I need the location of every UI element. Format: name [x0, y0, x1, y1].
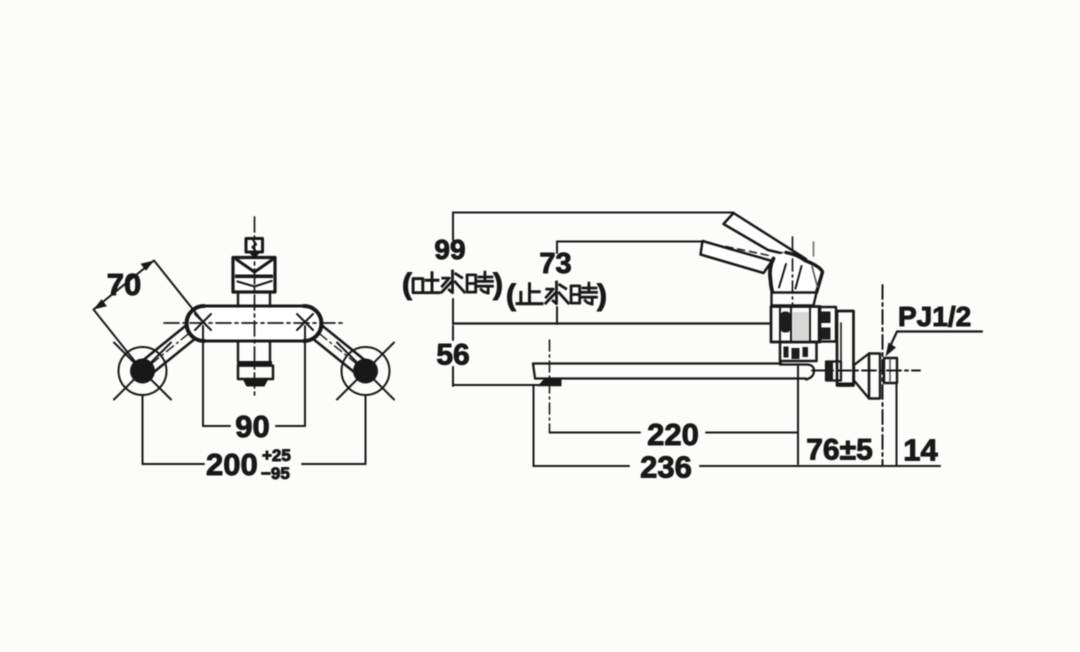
lever tip arrow (front) [248, 251, 262, 260]
spout neck (front) [238, 341, 270, 361]
wall line vertical [882, 285, 884, 466]
crank bar [837, 311, 854, 386]
right leg axis dash [305, 322, 366, 371]
left leg axis dash [143, 322, 204, 371]
svg-text:73: 73 [539, 248, 571, 280]
bell inner slants [779, 264, 802, 289]
svg-text:PJ1/2: PJ1/2 [898, 301, 971, 332]
lever open position [724, 213, 807, 259]
aerator (side) [538, 379, 562, 386]
vertical dim line x557 [556, 242, 558, 325]
lever bell [770, 253, 823, 293]
dim 200 line [143, 463, 366, 465]
lever hidden vertical [813, 242, 815, 256]
spout tube (side) [533, 364, 806, 379]
dim 70 arrow lower [94, 299, 108, 309]
svg-text:76±5: 76±5 [806, 434, 873, 467]
dim 220 line [550, 432, 799, 434]
svg-text:−95: −95 [261, 464, 290, 483]
label (吐水時) [402, 268, 503, 301]
cartridge centerline [792, 237, 794, 307]
body end cap left heavy [187, 306, 205, 341]
handle lower curve [238, 281, 272, 287]
body inner edge lines [780, 307, 810, 342]
lever hidden dashes [726, 247, 769, 256]
svg-text:236: 236 [640, 450, 692, 485]
dim 90 line [203, 425, 305, 427]
bottom reference line 56 [453, 384, 539, 386]
handle block (front) [233, 258, 275, 293]
aerator (front) [244, 379, 268, 386]
dim 90 extension left [202, 326, 204, 426]
thread stub PJ1/2 [884, 358, 897, 383]
main center reference line [453, 322, 771, 324]
body block [771, 307, 820, 343]
label (止水時) [506, 279, 607, 312]
handle V notch [237, 260, 273, 273]
spout nut [780, 342, 817, 361]
top reference line 99 [453, 212, 734, 214]
lever closed position [701, 241, 773, 273]
body end cap right heavy [304, 306, 322, 341]
right flange cross [337, 343, 394, 400]
dim 70 arrow upper [141, 261, 155, 271]
crank inner line [840, 323, 842, 369]
dim 70: extension from flange [94, 310, 143, 372]
PJ1/2 leader line [888, 332, 983, 353]
svg-text:220: 220 [647, 417, 699, 452]
svg-text:200: 200 [206, 447, 258, 482]
svg-text:70: 70 [107, 267, 141, 302]
X mark left body end [195, 314, 211, 330]
handle neck [238, 292, 270, 307]
handle knob (front) [246, 239, 263, 253]
svg-text:56: 56 [436, 339, 469, 372]
wall flange cone [854, 354, 869, 399]
right flange circle [342, 347, 390, 395]
spout elbow [780, 361, 814, 380]
extension dash line aerator [549, 340, 551, 433]
crank foot dark [827, 362, 834, 380]
svg-text:+25: +25 [262, 446, 291, 465]
dim 90 extension right [304, 326, 306, 426]
left leg bar [138, 316, 209, 377]
spout lower block [238, 366, 273, 379]
bell top arc [786, 253, 823, 293]
svg-text:99: 99 [434, 234, 465, 265]
left flange cross [114, 343, 171, 400]
reference line 73 [557, 241, 702, 243]
dim 200 extension right [365, 396, 367, 464]
dim 200 extension left [142, 396, 144, 464]
svg-text:(: ( [402, 268, 412, 301]
left flange circle [119, 347, 167, 395]
wall plate [869, 354, 880, 399]
vertical dim line x453 [452, 213, 454, 387]
mounting nut [819, 307, 836, 342]
svg-text:): ) [597, 279, 607, 312]
nut recess upper [821, 312, 831, 324]
right flange hub [353, 359, 378, 384]
extension line spout tip [533, 386, 535, 466]
svg-text:): ) [493, 268, 503, 301]
svg-text:(: ( [506, 279, 516, 312]
cartridge cap [772, 293, 817, 306]
dim 70: dimension line [94, 261, 155, 310]
dim 236 line [534, 465, 941, 467]
body dark detail [781, 312, 791, 333]
crank bottom heavy [837, 383, 854, 386]
thread shade [889, 359, 891, 382]
extension line body axis [797, 366, 799, 464]
left flange hub [130, 359, 155, 384]
right leg bar [300, 316, 371, 377]
extension line thread end [896, 383, 898, 466]
faucet body (stadium) [187, 306, 321, 341]
bell heavy left edge [770, 259, 774, 293]
svg-text:90: 90 [235, 409, 269, 444]
spout dark ring [237, 361, 272, 366]
handle dark band [235, 275, 273, 279]
bell right slant [812, 267, 818, 288]
horizontal body centerline over body [164, 322, 345, 324]
crank foot block [826, 362, 841, 381]
X mark right body end [297, 314, 313, 330]
spout nut knurl [784, 347, 789, 358]
knob inner mark [253, 241, 257, 251]
body grey face [793, 312, 809, 341]
vertical centerline front view [254, 217, 256, 399]
svg-text:14: 14 [903, 433, 938, 468]
PJ1/2 arrow [886, 343, 897, 357]
nut recess lower [821, 328, 831, 340]
dim 70: extension from body X [154, 261, 203, 323]
wall centerline horizontal [812, 370, 920, 372]
